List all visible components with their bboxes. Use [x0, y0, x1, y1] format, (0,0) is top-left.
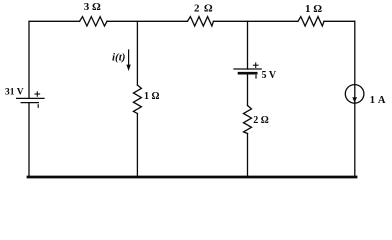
wire top segment right (1-ohm resistor to right corner) — [324, 20, 355, 22]
wire 5V branch lower (2-ohm resistor to bottom rail) — [247, 134, 249, 178]
svg-text:i(t): i(t) — [112, 52, 125, 64]
svg-text:1 A: 1 A — [370, 95, 386, 106]
resistor 2 ohm (top middle, horizontal) — [187, 17, 213, 26]
wire middle branch upper (top wire down to 1-ohm resistor) — [136, 21, 138, 85]
battery 31 V bottom plate (short, negative) — [21, 102, 38, 104]
battery 31 V plus sign — [35, 92, 40, 96]
svg-text:2 Ω: 2 Ω — [194, 2, 213, 14]
battery 5 V plus sign — [253, 63, 258, 67]
wire top segment left (left corner to 3-ohm resistor) — [29, 21, 80, 98]
battery 5 V bottom plate (short, thick, negative) — [239, 72, 256, 75]
svg-text:1 Ω: 1 Ω — [305, 3, 322, 15]
wire bottom rail (thick) — [28, 176, 356, 179]
wire top segment between 3-ohm and 2-ohm resistors — [107, 20, 187, 22]
current source 1 A (circle) — [345, 85, 364, 104]
wire 5V branch upper (top wire down to battery) — [247, 21, 249, 69]
svg-text:5 V: 5 V — [262, 70, 277, 81]
current arrow i(t) head — [126, 65, 130, 71]
battery 31 V top plate (long, positive) — [17, 97, 44, 99]
svg-text:3 Ω: 3 Ω — [84, 1, 101, 13]
svg-text:31 V: 31 V — [5, 88, 24, 98]
resistor 1 ohm (top right, horizontal) — [298, 17, 324, 26]
svg-text:2 Ω: 2 Ω — [253, 115, 269, 126]
wire 5V branch middle (battery down to 2-ohm resistor) — [247, 73, 249, 105]
wire top segment between 2-ohm and 1-ohm resistors — [214, 20, 298, 22]
battery 5 V minus tick — [255, 75, 257, 78]
battery 31 V minus tick — [37, 105, 39, 107]
resistor 2 ohm (vertical, below battery) — [244, 106, 252, 134]
wire left branch lower (battery to bottom rail) — [28, 103, 30, 177]
wire middle branch lower (1-ohm resistor to bottom rail) — [136, 114, 138, 178]
resistor 1 ohm (middle, vertical) — [133, 85, 141, 114]
resistor 3 ohm (top left, horizontal) — [80, 17, 108, 26]
battery 5 V top plate (long, positive) — [234, 68, 261, 70]
svg-text:1 Ω: 1 Ω — [144, 91, 160, 102]
current source 1 A arrow (shaft is the wire, head near circle bottom) — [352, 97, 357, 102]
wire right branch (top corner down through current source to bottom rail) — [354, 21, 356, 177]
current arrow i(t) shaft — [128, 50, 130, 66]
